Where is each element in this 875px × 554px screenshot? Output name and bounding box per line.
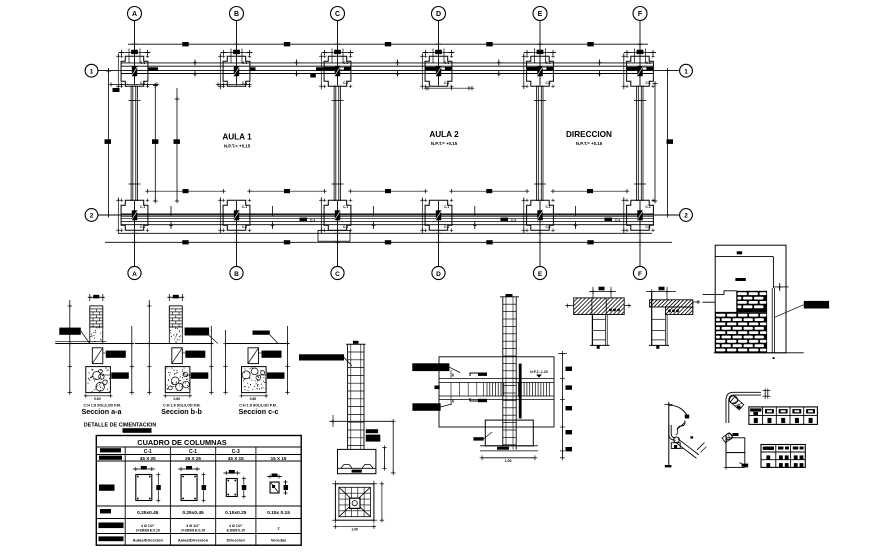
svg-text:E:Ø3/8 0.15: E:Ø3/8 0.15 <box>227 528 245 532</box>
svg-text:A: A <box>132 11 137 18</box>
svg-text:C-1: C-1 <box>444 61 449 65</box>
svg-text:C-1: C-1 <box>343 81 348 85</box>
svg-text:0.15x0.25: 0.15x0.25 <box>225 510 247 516</box>
svg-text:C-3: C-3 <box>232 449 240 455</box>
svg-text:0.25x0.45: 0.25x0.45 <box>182 510 204 516</box>
svg-text:C-1: C-1 <box>646 225 651 229</box>
svg-text:C-1: C-1 <box>646 81 651 85</box>
svg-text:2: 2 <box>684 213 688 220</box>
svg-text:X: X <box>451 399 454 404</box>
svg-text:C-1: C-1 <box>242 205 247 209</box>
svg-text:25 X 25: 25 X 25 <box>185 456 201 461</box>
svg-text:C-1: C-1 <box>444 81 449 85</box>
svg-text:0.60: 0.60 <box>94 397 101 401</box>
svg-text:DIRECCION: DIRECCION <box>566 130 612 139</box>
svg-text:AULA 1: AULA 1 <box>222 133 252 142</box>
svg-text:2: 2 <box>277 527 279 531</box>
svg-text:1: 1 <box>684 68 688 75</box>
svg-text:C: C <box>335 11 340 18</box>
svg-text:45 X 15: 45 X 15 <box>228 456 244 461</box>
svg-text:F: F <box>638 271 642 278</box>
svg-text:N.P.T.= +0.15: N.P.T.= +0.15 <box>576 141 603 146</box>
svg-text:45 X 25: 45 X 25 <box>140 456 156 461</box>
svg-text:C-1: C-1 <box>546 81 551 85</box>
svg-text:1: 1 <box>90 68 94 75</box>
svg-text:C-1: C-1 <box>242 81 247 85</box>
svg-text:N.P.T.= +0.15: N.P.T.= +0.15 <box>431 141 458 146</box>
svg-text:DETALLE DE CIMENTACION: DETALLE DE CIMENTACION <box>84 422 157 428</box>
svg-text:C: C <box>335 271 340 278</box>
svg-text:C-1: C-1 <box>242 225 247 229</box>
svg-text:CUADRO DE COLUMNAS: CUADRO DE COLUMNAS <box>137 438 227 447</box>
svg-text:Aulas/Direccion: Aulas/Direccion <box>133 538 164 543</box>
svg-text:C-1: C-1 <box>144 449 152 455</box>
svg-text:E: E <box>538 11 543 18</box>
svg-text:N.P.T.= +0.15: N.P.T.= +0.15 <box>224 144 251 149</box>
svg-text:1.00: 1.00 <box>505 459 512 463</box>
svg-text:C-1: C-1 <box>242 61 247 65</box>
svg-text:C-1: C-1 <box>140 225 145 229</box>
svg-text:4 Ø 1/2": 4 Ø 1/2" <box>141 524 155 528</box>
svg-text:D: D <box>436 271 441 278</box>
svg-text:2: 2 <box>90 213 94 220</box>
svg-text:Seccion b-b: Seccion b-b <box>161 407 202 416</box>
svg-text:0.60: 0.60 <box>250 397 257 401</box>
svg-text:C-3: C-3 <box>310 219 315 223</box>
svg-text:15 X 15: 15 X 15 <box>271 456 287 461</box>
svg-text:C-1: C-1 <box>343 205 348 209</box>
svg-text:0.15x 0.15: 0.15x 0.15 <box>267 510 290 516</box>
svg-text:2+2Ø3/8 E:0.15: 2+2Ø3/8 E:0.15 <box>136 528 160 532</box>
svg-text:C-1: C-1 <box>546 225 551 229</box>
svg-text:E: E <box>538 271 543 278</box>
svg-text:C-1: C-1 <box>444 225 449 229</box>
svg-text:B: B <box>234 271 239 278</box>
svg-text:C-1: C-1 <box>140 61 145 65</box>
svg-text:2+2Ø3/8 E:0.15: 2+2Ø3/8 E:0.15 <box>181 528 205 532</box>
svg-text:A: A <box>132 271 137 278</box>
svg-text:C-1: C-1 <box>546 205 551 209</box>
svg-text:C-1: C-1 <box>546 61 551 65</box>
svg-text:Seccion a-a: Seccion a-a <box>82 407 123 416</box>
svg-text:4 Ø 1/2": 4 Ø 1/2" <box>229 524 243 528</box>
svg-text:4 Ø 1/2": 4 Ø 1/2" <box>186 524 200 528</box>
svg-text:C-1: C-1 <box>343 61 348 65</box>
svg-text:B: B <box>234 11 239 18</box>
svg-text:C-1: C-1 <box>444 205 449 209</box>
svg-text:C-1: C-1 <box>646 61 651 65</box>
svg-text:X: X <box>451 373 454 378</box>
svg-text:Aulas/Direccion: Aulas/Direccion <box>178 538 209 543</box>
svg-text:Veredas: Veredas <box>271 538 287 543</box>
svg-text:C-1: C-1 <box>343 225 348 229</box>
svg-text:C-3: C-3 <box>615 219 620 223</box>
svg-text:0.25x0.45: 0.25x0.45 <box>137 510 159 516</box>
svg-text:C-1: C-1 <box>189 449 197 455</box>
svg-text:Direccion: Direccion <box>227 538 246 543</box>
svg-text:0.60: 0.60 <box>173 397 180 401</box>
svg-text:AULA 2: AULA 2 <box>429 130 459 139</box>
svg-text:C-3: C-3 <box>511 219 516 223</box>
svg-text:Seccion c-c: Seccion c-c <box>239 407 279 416</box>
svg-text:C-1: C-1 <box>646 205 651 209</box>
svg-text:F: F <box>638 11 643 18</box>
svg-text:1.00: 1.00 <box>351 528 358 532</box>
svg-text:N.F.Z.-1.20: N.F.Z.-1.20 <box>530 370 548 374</box>
svg-text:C-1: C-1 <box>140 205 145 209</box>
svg-text:D: D <box>436 11 441 18</box>
